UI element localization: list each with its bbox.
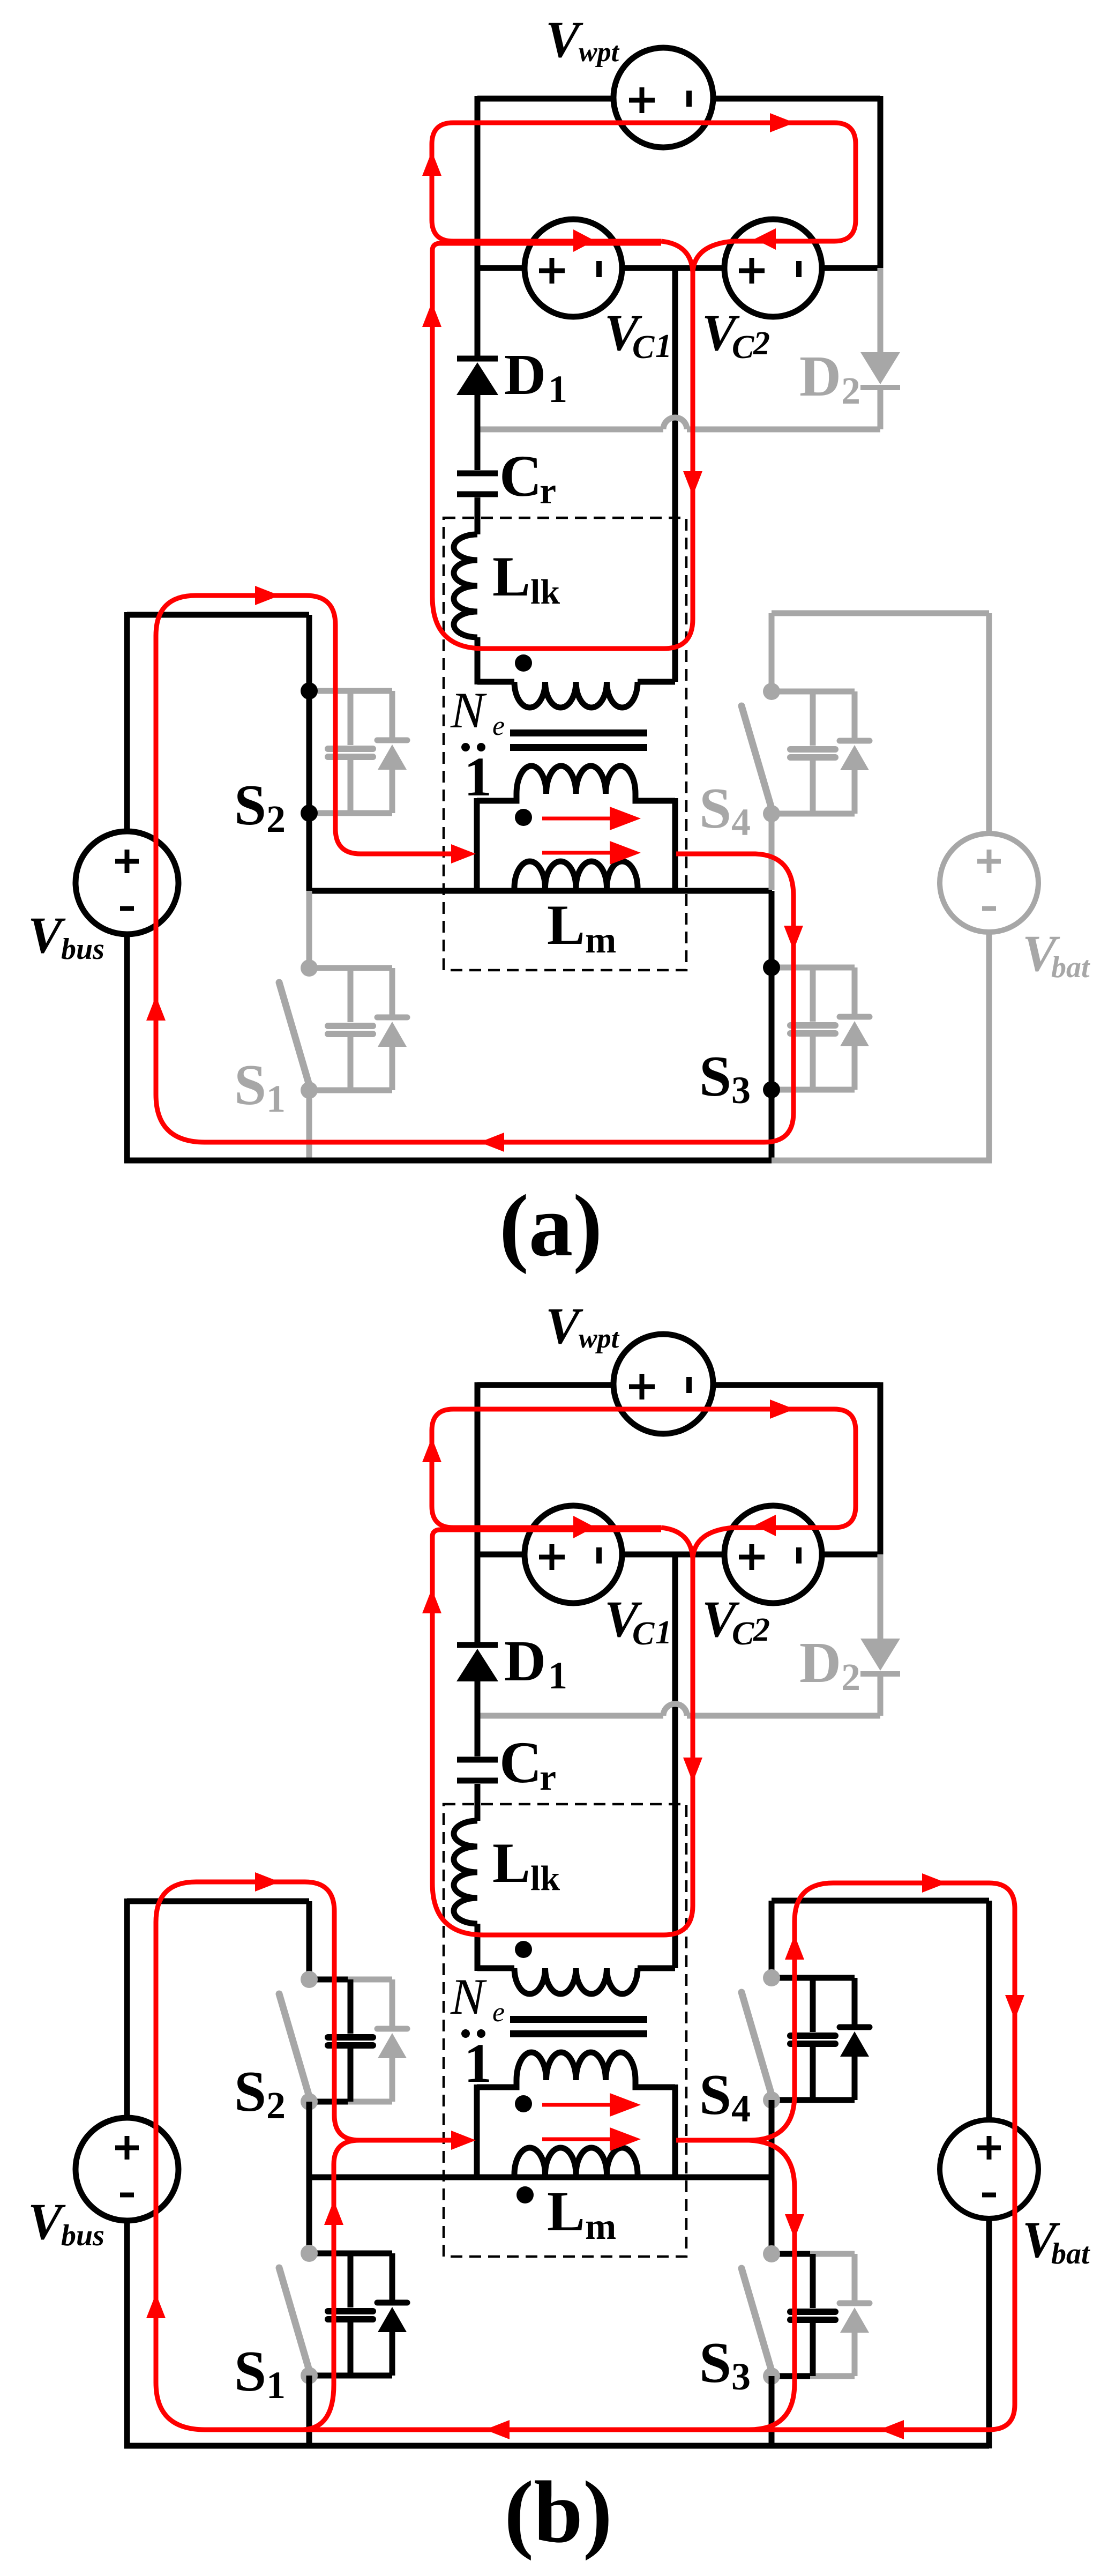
svg-text:bus: bus bbox=[61, 933, 104, 966]
svg-text:S: S bbox=[234, 2060, 266, 2124]
svg-text:4: 4 bbox=[731, 2087, 751, 2130]
svg-text:e: e bbox=[492, 1997, 505, 2028]
svg-text:1: 1 bbox=[548, 368, 567, 411]
svg-text:m: m bbox=[585, 920, 616, 961]
svg-text:4: 4 bbox=[731, 801, 751, 844]
svg-text:S: S bbox=[234, 773, 266, 837]
svg-text:(a): (a) bbox=[499, 1177, 602, 1275]
svg-text:1: 1 bbox=[655, 1614, 672, 1651]
svg-text:wpt: wpt bbox=[579, 1323, 620, 1354]
svg-text:2: 2 bbox=[266, 798, 286, 840]
svg-text:S: S bbox=[699, 2063, 731, 2127]
svg-text:L: L bbox=[547, 2180, 585, 2243]
svg-text:m: m bbox=[585, 2206, 616, 2247]
svg-text:1: 1 bbox=[266, 2364, 286, 2407]
svg-text:1: 1 bbox=[464, 2032, 492, 2094]
svg-text:N: N bbox=[450, 1968, 487, 2025]
svg-text:C: C bbox=[499, 443, 542, 509]
svg-text:V: V bbox=[28, 906, 66, 964]
svg-text:r: r bbox=[540, 471, 556, 512]
svg-text:wpt: wpt bbox=[579, 37, 620, 68]
svg-text:bat: bat bbox=[1051, 951, 1090, 984]
svg-text:bus: bus bbox=[61, 2219, 104, 2252]
svg-text:C: C bbox=[632, 329, 655, 366]
svg-text:2: 2 bbox=[753, 325, 770, 362]
svg-text:C: C bbox=[632, 1615, 655, 1652]
svg-text:V: V bbox=[28, 2193, 66, 2250]
svg-text:L: L bbox=[547, 894, 585, 956]
svg-text:bat: bat bbox=[1051, 2237, 1090, 2270]
svg-text:V: V bbox=[545, 11, 583, 68]
svg-text:S: S bbox=[234, 2340, 266, 2403]
svg-text:3: 3 bbox=[731, 2355, 751, 2398]
svg-text:lk: lk bbox=[530, 1859, 560, 1898]
svg-text:N: N bbox=[450, 682, 487, 739]
svg-text:lk: lk bbox=[530, 572, 560, 612]
svg-text:1: 1 bbox=[655, 328, 672, 364]
svg-text:L: L bbox=[492, 1832, 530, 1894]
svg-text:L: L bbox=[492, 545, 530, 608]
svg-text:1: 1 bbox=[548, 1654, 567, 1697]
svg-text:S: S bbox=[699, 2331, 731, 2395]
svg-text:2: 2 bbox=[841, 1656, 860, 1699]
svg-text:e: e bbox=[492, 711, 505, 741]
svg-text:D: D bbox=[799, 1631, 841, 1695]
svg-text:2: 2 bbox=[266, 2084, 286, 2127]
svg-text:D: D bbox=[799, 345, 841, 408]
svg-text:C: C bbox=[732, 1615, 754, 1652]
svg-text:3: 3 bbox=[731, 1069, 751, 1112]
svg-text:D: D bbox=[504, 343, 546, 407]
svg-text:C: C bbox=[499, 1730, 542, 1795]
svg-text:S: S bbox=[699, 1045, 731, 1108]
svg-text:V: V bbox=[545, 1297, 583, 1354]
svg-text:S: S bbox=[699, 777, 731, 840]
svg-text:(b): (b) bbox=[504, 2463, 612, 2561]
svg-text:1: 1 bbox=[464, 746, 492, 808]
svg-text:S: S bbox=[234, 1053, 266, 1117]
svg-text:C: C bbox=[732, 329, 754, 366]
svg-text:2: 2 bbox=[753, 1612, 770, 1648]
svg-text:D: D bbox=[504, 1629, 546, 1693]
svg-text:1: 1 bbox=[266, 1077, 286, 1120]
svg-text:2: 2 bbox=[841, 369, 860, 412]
svg-text:r: r bbox=[540, 1757, 556, 1798]
